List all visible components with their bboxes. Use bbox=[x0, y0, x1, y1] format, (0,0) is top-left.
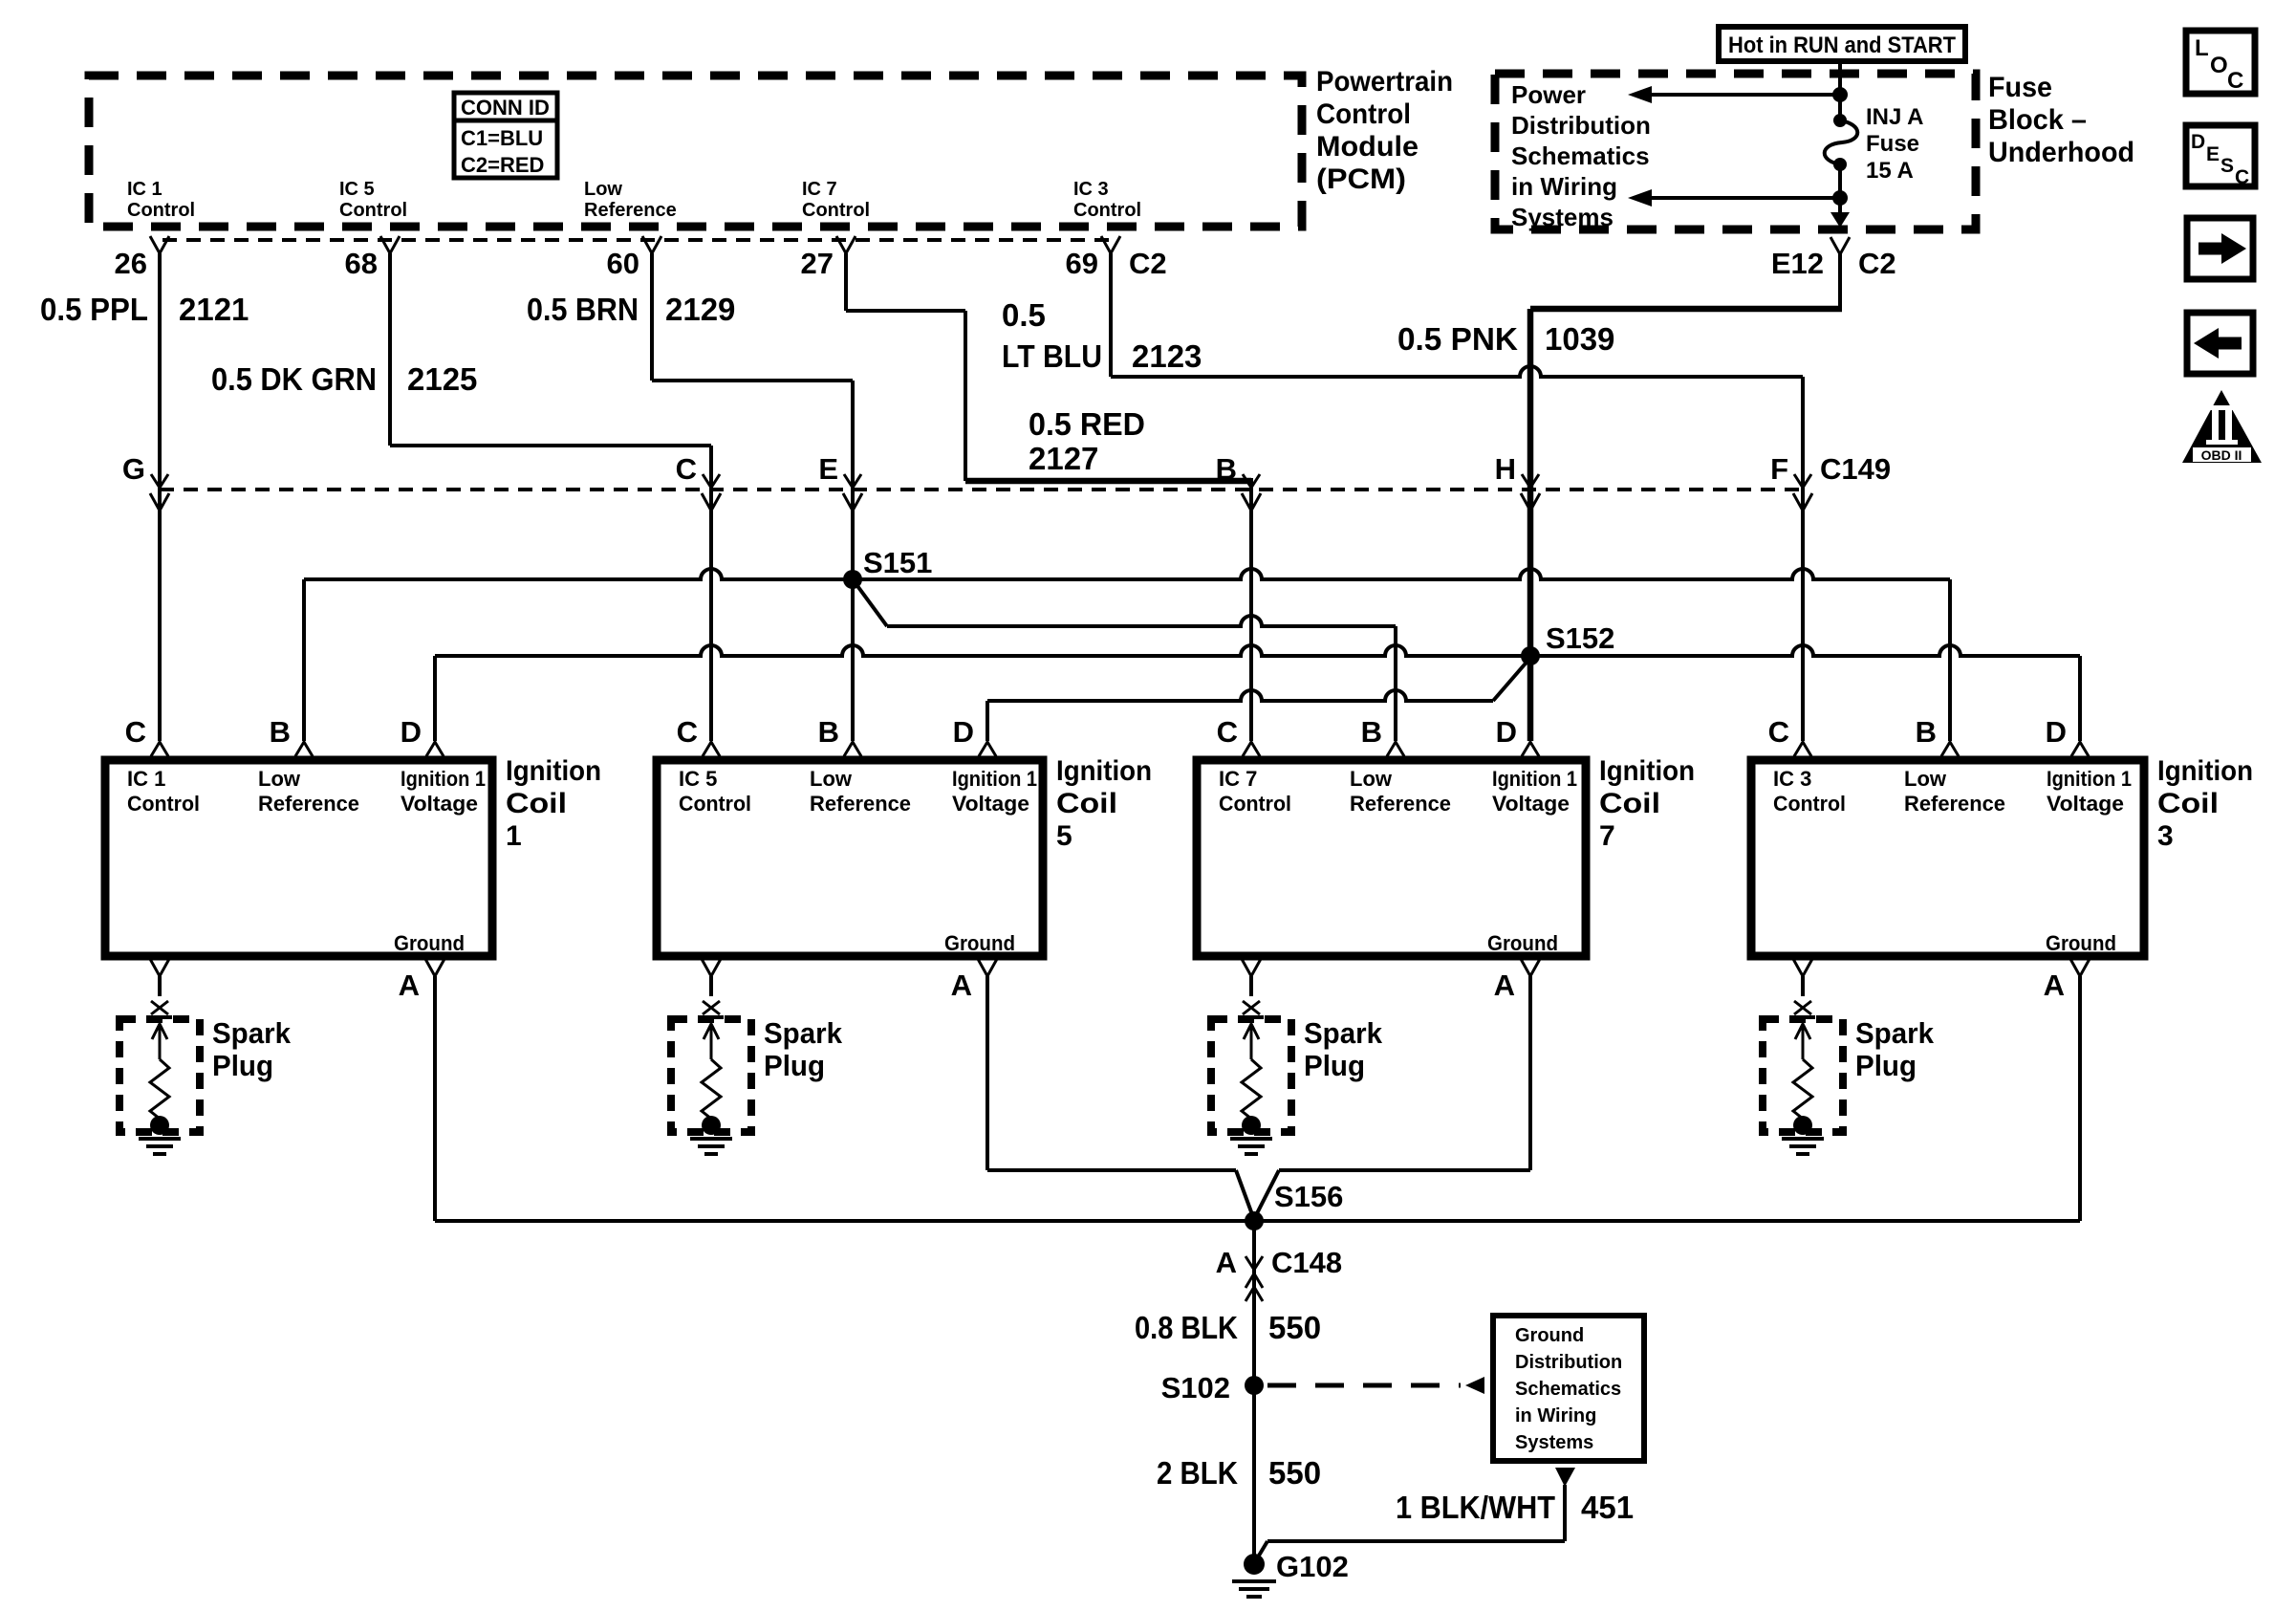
wire label 0.5 LT BLU 2123 bbox=[1002, 297, 1202, 374]
ignition coil 5 name label bbox=[1056, 755, 1152, 852]
svg-text:O: O bbox=[2210, 53, 2228, 78]
svg-text:C: C bbox=[677, 715, 698, 749]
svg-text:S152: S152 bbox=[1546, 621, 1614, 655]
coil 5 pin letter A bbox=[951, 969, 972, 1002]
wire label 1 BLK/WHT 451 bbox=[1396, 1490, 1634, 1525]
coil 1 pin label Ground bbox=[394, 931, 465, 955]
svg-text:Ground: Ground bbox=[1487, 931, 1558, 955]
svg-text:C: C bbox=[2227, 68, 2243, 94]
svg-text:Control: Control bbox=[1773, 792, 1846, 816]
wire 2123 0.5 LT BLU: PCM pin 69 jog to C149 F to coil3 C bbox=[1111, 253, 1803, 741]
wire 2125 0.5 DK GRN: PCM pin 68 jog to C149 C to coil5 C bbox=[390, 253, 711, 741]
coil 5 pin letter B bbox=[818, 715, 839, 749]
svg-text:C: C bbox=[2235, 166, 2249, 188]
wire 2127 0.5 RED: PCM pin 27 jog to C149 B to coil7 C bbox=[846, 253, 1251, 741]
C149 pin letter G bbox=[122, 452, 145, 486]
spark plug dashed box bbox=[119, 1019, 200, 1132]
svg-text:Ground: Ground bbox=[1515, 1325, 1584, 1346]
coil 7 pin letter B bbox=[1361, 715, 1382, 749]
svg-text:1 BLK/WHT: 1 BLK/WHT bbox=[1396, 1490, 1555, 1525]
ignition coil 7 box bbox=[1197, 760, 1586, 956]
coil 5 pin letter D bbox=[953, 715, 974, 749]
svg-text:in Wiring: in Wiring bbox=[1515, 1405, 1596, 1426]
PCM pin number 27 bbox=[801, 247, 834, 280]
svg-text:A: A bbox=[1216, 1246, 1237, 1279]
svg-text:Plug: Plug bbox=[764, 1049, 825, 1082]
PCM pin 60 connector Y bbox=[642, 236, 661, 253]
coil 7 spark output connector bbox=[1242, 959, 1261, 1014]
svg-text:Voltage: Voltage bbox=[401, 792, 478, 816]
coil 7 pin C connector symbol bbox=[1243, 742, 1260, 756]
wire: fuse output down bbox=[1838, 164, 1842, 214]
spark plug dashed box bbox=[1763, 1019, 1843, 1132]
svg-text:IC 7: IC 7 bbox=[1219, 767, 1257, 791]
CONN ID legend table: C1=BLU C2=RED bbox=[454, 93, 557, 178]
svg-text:Control: Control bbox=[679, 792, 751, 816]
arrow out of fuse box (down) bbox=[1830, 212, 1850, 228]
PCM pin number 26 bbox=[115, 247, 147, 280]
svg-text:550: 550 bbox=[1268, 1310, 1321, 1345]
coil 7 pin label Low Reference bbox=[1350, 767, 1451, 816]
coil 3 pin letter B bbox=[1916, 715, 1937, 749]
spark plug ground symbol bbox=[1230, 1139, 1272, 1154]
wire label 0.5 RED 2127 bbox=[1029, 406, 1145, 476]
svg-text:B: B bbox=[1361, 715, 1382, 749]
svg-text:LT BLU: LT BLU bbox=[1002, 338, 1102, 374]
svg-text:Low: Low bbox=[1350, 767, 1393, 791]
ignition coil 3 name label bbox=[2157, 755, 2253, 852]
svg-text:2 BLK: 2 BLK bbox=[1157, 1455, 1238, 1491]
coil 7 pin letter C bbox=[1217, 715, 1238, 749]
svg-text:0.5 PNK: 0.5 PNK bbox=[1397, 321, 1518, 357]
PCM pin 27 connector Y bbox=[836, 236, 856, 253]
svg-text:C2=RED: C2=RED bbox=[461, 153, 544, 177]
coil 5 pin letter C bbox=[677, 715, 698, 749]
svg-text:Control: Control bbox=[1219, 792, 1291, 816]
svg-text:0.5 BRN: 0.5 BRN bbox=[527, 292, 639, 327]
PCM label: Powertrain Control Module (PCM) bbox=[1316, 66, 1453, 195]
svg-text:Control: Control bbox=[339, 200, 407, 221]
coil 3 pin label Ignition 1 Voltage bbox=[2047, 767, 2132, 816]
PCM pin label: IC 1 Control bbox=[127, 179, 195, 221]
svg-text:C1=BLU: C1=BLU bbox=[461, 126, 543, 150]
svg-text:S151: S151 bbox=[863, 546, 932, 579]
svg-text:550: 550 bbox=[1268, 1455, 1321, 1491]
svg-text:B: B bbox=[818, 715, 839, 749]
coil 1 pin letter B bbox=[270, 715, 291, 749]
svg-text:G102: G102 bbox=[1276, 1550, 1349, 1583]
svg-text:Low: Low bbox=[1904, 767, 1947, 791]
wire: coil7 A to S156 bbox=[1255, 976, 1530, 1217]
svg-text:Coil: Coil bbox=[506, 788, 567, 819]
wire label 0.5 PPL 2121 bbox=[40, 292, 249, 327]
svg-text:Reference: Reference bbox=[258, 792, 359, 816]
coil 1 pin D connector symbol bbox=[426, 742, 444, 756]
svg-text:Low: Low bbox=[258, 767, 301, 791]
PCM pin label: IC 5 Control bbox=[339, 179, 407, 221]
svg-text:Ignition 1: Ignition 1 bbox=[2047, 767, 2132, 791]
PCM pin number 68 bbox=[345, 247, 378, 280]
svg-text:A: A bbox=[1494, 969, 1515, 1002]
svg-text:3: 3 bbox=[2157, 820, 2174, 852]
coil 1 pin label Ignition 1 Voltage bbox=[401, 767, 486, 816]
svg-text:Coil: Coil bbox=[1599, 788, 1660, 819]
wire 451 1 BLK/WHT: ground distribution box to G102 bbox=[1256, 1468, 1575, 1560]
svg-text:451: 451 bbox=[1581, 1490, 1634, 1525]
svg-text:IC 3: IC 3 bbox=[1073, 179, 1109, 200]
coil 5 pin label IC 5 Control bbox=[679, 767, 751, 816]
svg-text:S: S bbox=[2220, 155, 2234, 177]
C149 pin H connector symbol bbox=[1521, 474, 1540, 511]
C149 pin B connector symbol bbox=[1242, 474, 1261, 511]
svg-text:Voltage: Voltage bbox=[1492, 792, 1570, 816]
splice label S102 bbox=[1161, 1371, 1230, 1404]
splice S156 bbox=[1245, 1211, 1264, 1230]
spark plug electrode and resistor bbox=[147, 1017, 172, 1135]
svg-text:Reference: Reference bbox=[1350, 792, 1451, 816]
arrow to power distribution (top) bbox=[1628, 86, 1848, 103]
svg-text:Distribution: Distribution bbox=[1511, 111, 1651, 140]
svg-text:2123: 2123 bbox=[1132, 338, 1202, 374]
svg-text:Control: Control bbox=[127, 200, 195, 221]
svg-text:C: C bbox=[125, 715, 146, 749]
spark plug label bbox=[1855, 1016, 1935, 1082]
PCM pin label: IC 3 Control bbox=[1073, 179, 1141, 221]
svg-text:2125: 2125 bbox=[407, 361, 477, 397]
coil 1 pin letter A bbox=[399, 969, 420, 1002]
svg-text:Low: Low bbox=[810, 767, 853, 791]
svg-text:Ground: Ground bbox=[2046, 931, 2116, 955]
svg-text:26: 26 bbox=[115, 247, 147, 280]
ignition coil 7 name label bbox=[1599, 755, 1695, 852]
coil 3 spark output connector bbox=[1793, 959, 1812, 1014]
svg-text:Voltage: Voltage bbox=[952, 792, 1029, 816]
C149 pin C connector symbol bbox=[702, 474, 721, 511]
coil 5 pin B connector symbol bbox=[844, 742, 861, 756]
fuse INJ A 15 A bbox=[1825, 104, 1924, 184]
coil 7 pin letter D bbox=[1496, 715, 1517, 749]
arrow to power distribution (bottom) bbox=[1628, 189, 1848, 207]
LOC icon box bbox=[2186, 31, 2255, 94]
DESC icon box bbox=[2186, 125, 2255, 188]
wire 2129 0.5 BRN: PCM pin 60 jog to C149 E to S151 to coil5 B bbox=[652, 253, 853, 741]
svg-text:Schematics: Schematics bbox=[1511, 142, 1650, 170]
coil 7 pin label Ignition 1 Voltage bbox=[1492, 767, 1577, 816]
connector label A C148 bbox=[1216, 1246, 1343, 1279]
PCM pin 69 connector Y bbox=[1101, 236, 1120, 253]
wire: ignition voltage bus coil1 D to S152 to coil3 D bbox=[435, 645, 2080, 741]
svg-text:B: B bbox=[1216, 452, 1237, 486]
C149 pin G connector symbol bbox=[150, 474, 169, 511]
svg-text:C2: C2 bbox=[1129, 247, 1167, 280]
svg-text:H: H bbox=[1495, 452, 1516, 486]
svg-text:Control: Control bbox=[1316, 98, 1411, 130]
svg-text:C: C bbox=[1768, 715, 1789, 749]
svg-text:Powertrain: Powertrain bbox=[1316, 66, 1453, 98]
svg-text:D: D bbox=[1496, 715, 1517, 749]
left arrow icon box bbox=[2187, 313, 2253, 374]
C149 pin letter B bbox=[1216, 452, 1237, 486]
wire label 0.5 BRN 2129 bbox=[527, 292, 735, 327]
svg-text:Hot in RUN and START: Hot in RUN and START bbox=[1728, 33, 1956, 58]
svg-text:0.5 PPL: 0.5 PPL bbox=[40, 292, 148, 327]
svg-text:Coil: Coil bbox=[1056, 788, 1117, 819]
svg-text:Ignition 1: Ignition 1 bbox=[952, 767, 1037, 791]
svg-text:C2: C2 bbox=[1858, 247, 1896, 280]
svg-text:2129: 2129 bbox=[665, 292, 735, 327]
svg-text:Power: Power bbox=[1511, 80, 1586, 109]
svg-text:L: L bbox=[2195, 35, 2209, 61]
coil 5 pin A connector symbol bbox=[978, 959, 997, 976]
svg-text:0.5: 0.5 bbox=[1002, 297, 1046, 333]
C149 pin letter E bbox=[818, 452, 838, 486]
svg-text:Control: Control bbox=[1073, 200, 1141, 221]
svg-text:68: 68 bbox=[345, 247, 378, 280]
svg-text:Ignition 1: Ignition 1 bbox=[401, 767, 486, 791]
svg-text:E12: E12 bbox=[1771, 247, 1824, 280]
svg-text:Distribution: Distribution bbox=[1515, 1352, 1622, 1373]
coil 3 pin letter C bbox=[1768, 715, 1789, 749]
coil 3 pin label Ground bbox=[2046, 931, 2116, 955]
PCM pin 26 connector Y bbox=[150, 236, 169, 253]
svg-text:Control: Control bbox=[127, 792, 200, 816]
coil 7 pin A connector symbol bbox=[1521, 959, 1540, 976]
svg-text:A: A bbox=[951, 969, 972, 1002]
coil 5 spark output connector bbox=[702, 959, 721, 1014]
svg-text:C: C bbox=[1217, 715, 1238, 749]
Ground Distribution Schematics in Wiring Systems box bbox=[1493, 1316, 1644, 1461]
coil 7 pin label IC 7 Control bbox=[1219, 767, 1291, 816]
svg-text:IC 1: IC 1 bbox=[127, 767, 165, 791]
svg-text:IC 5: IC 5 bbox=[679, 767, 717, 791]
spark plug ground symbol bbox=[1782, 1139, 1824, 1154]
svg-text:Ground: Ground bbox=[394, 931, 465, 955]
svg-text:Underhood: Underhood bbox=[1988, 137, 2134, 168]
coil 7 pin letter A bbox=[1494, 969, 1515, 1002]
ground label G102 bbox=[1276, 1550, 1349, 1583]
svg-text:D: D bbox=[2191, 131, 2205, 153]
PCM pin 68 connector Y bbox=[380, 236, 400, 253]
PCM module box (Powertrain Control Module, dashed) bbox=[89, 76, 1302, 227]
svg-text:Module: Module bbox=[1316, 131, 1419, 163]
spark plug dashed box bbox=[671, 1019, 751, 1132]
wire: ground bus coil1 A to S156 to coil3 A bbox=[435, 976, 2080, 1221]
svg-text:in Wiring: in Wiring bbox=[1511, 172, 1617, 201]
svg-text:Coil: Coil bbox=[2157, 788, 2219, 819]
coil 1 pin A connector symbol bbox=[425, 959, 444, 976]
svg-text:(PCM): (PCM) bbox=[1316, 163, 1406, 195]
svg-text:15 A: 15 A bbox=[1866, 158, 1914, 184]
svg-text:Low: Low bbox=[584, 179, 622, 200]
coil 3 pin C connector symbol bbox=[1794, 742, 1811, 756]
Hot in RUN and START box bbox=[1719, 27, 1965, 61]
wire 2121 0.5 PPL: PCM pin 26 to C149 G to coil1 C bbox=[158, 253, 162, 741]
svg-text:D: D bbox=[401, 715, 422, 749]
svg-text:7: 7 bbox=[1599, 820, 1615, 852]
coil 1 pin letter D bbox=[401, 715, 422, 749]
svg-text:60: 60 bbox=[607, 247, 639, 280]
Fuse Block label bbox=[1988, 72, 2134, 168]
splice S102 bbox=[1245, 1376, 1264, 1395]
svg-text:1039: 1039 bbox=[1545, 321, 1614, 357]
svg-text:Ignition: Ignition bbox=[1056, 755, 1152, 787]
svg-text:Spark: Spark bbox=[764, 1016, 843, 1050]
svg-text:0.8 BLK: 0.8 BLK bbox=[1135, 1310, 1238, 1345]
C149 pin letter F bbox=[1770, 452, 1788, 486]
coil 1 pin letter C bbox=[125, 715, 146, 749]
svg-text:Spark: Spark bbox=[212, 1016, 292, 1050]
coil 3 pin A connector symbol bbox=[2070, 959, 2090, 976]
Fuse Block - Underhood box (dashed) bbox=[1495, 74, 1976, 229]
svg-text:2127: 2127 bbox=[1029, 441, 1098, 476]
C149 pin F connector symbol bbox=[1793, 474, 1812, 511]
coil 5 pin label Ground bbox=[944, 931, 1015, 955]
ignition coil 5 box bbox=[657, 760, 1043, 956]
coil 5 pin C connector symbol bbox=[703, 742, 720, 756]
splice label S151 bbox=[863, 546, 932, 579]
wire: S151 branch to coil7 B bbox=[853, 579, 1396, 741]
coil 1 pin label IC 1 Control bbox=[127, 767, 200, 816]
svg-text:A: A bbox=[2044, 969, 2065, 1002]
wire label 2 BLK 550 bbox=[1157, 1455, 1321, 1491]
wire label 0.5 PNK 1039 bbox=[1397, 321, 1614, 357]
ignition coil 1 name label bbox=[506, 755, 601, 852]
svg-text:Reference: Reference bbox=[1904, 792, 2005, 816]
wire: S152 branch to coil5 D bbox=[987, 658, 1530, 741]
connector E12 C2 Y symbol bbox=[1830, 237, 1850, 254]
svg-text:Schematics: Schematics bbox=[1515, 1379, 1621, 1400]
svg-text:0.5 DK GRN: 0.5 DK GRN bbox=[211, 361, 377, 397]
svg-text:D: D bbox=[2046, 715, 2067, 749]
svg-text:2121: 2121 bbox=[179, 292, 249, 327]
svg-text:27: 27 bbox=[801, 247, 834, 280]
svg-text:A: A bbox=[399, 969, 420, 1002]
spark plug ground symbol bbox=[690, 1139, 732, 1154]
wire label 0.8 BLK 550 bbox=[1135, 1310, 1321, 1345]
svg-text:IC 1: IC 1 bbox=[127, 179, 162, 200]
coil 3 pin D connector symbol bbox=[2071, 742, 2089, 756]
spark plug electrode and resistor bbox=[1790, 1017, 1815, 1135]
svg-text:E: E bbox=[2206, 143, 2220, 165]
PCM C2 connector dashed line bbox=[162, 238, 1111, 242]
coil 3 pin letter A bbox=[2044, 969, 2065, 1002]
wire 550 0.8 BLK: S156 to connector C148 to S102 bbox=[1252, 1221, 1256, 1385]
svg-text:B: B bbox=[1916, 715, 1937, 749]
splice label S156 bbox=[1274, 1180, 1343, 1213]
coil 1 spark output connector bbox=[150, 959, 169, 1014]
wire: feed from Hot box into fuse bbox=[1838, 61, 1842, 120]
svg-text:Fuse: Fuse bbox=[1988, 72, 2052, 103]
svg-text:Plug: Plug bbox=[1855, 1049, 1917, 1082]
PCM pin label: Low Reference bbox=[584, 179, 677, 221]
coil 5 pin label Ignition 1 Voltage bbox=[952, 767, 1037, 816]
svg-text:F: F bbox=[1770, 452, 1788, 486]
svg-text:Fuse: Fuse bbox=[1866, 131, 1919, 157]
coil 5 pin D connector symbol bbox=[979, 742, 996, 756]
connector label C2 (fuse) bbox=[1858, 247, 1896, 280]
svg-text:Ground: Ground bbox=[944, 931, 1015, 955]
connector label C149 bbox=[1820, 452, 1891, 486]
coil 7 pin B connector symbol bbox=[1387, 742, 1404, 756]
coil 7 pin label Ground bbox=[1487, 931, 1558, 955]
wire label 0.5 DK GRN 2125 bbox=[211, 361, 477, 397]
svg-text:1: 1 bbox=[506, 820, 522, 852]
svg-text:S156: S156 bbox=[1274, 1180, 1343, 1213]
coil 7 pin D connector symbol bbox=[1522, 742, 1539, 756]
coil 1 pin C connector symbol bbox=[151, 742, 168, 756]
spark plug ground symbol bbox=[139, 1139, 181, 1154]
svg-text:Block –: Block – bbox=[1988, 104, 2087, 136]
spark plug electrode and resistor bbox=[699, 1017, 724, 1135]
coil 3 pin label IC 3 Control bbox=[1773, 767, 1846, 816]
svg-text:Plug: Plug bbox=[212, 1049, 273, 1082]
splice label S152 bbox=[1546, 621, 1614, 655]
svg-text:IC 3: IC 3 bbox=[1773, 767, 1811, 791]
svg-text:Systems: Systems bbox=[1515, 1432, 1593, 1453]
splice S152 bbox=[1521, 646, 1540, 665]
svg-text:Ignition 1: Ignition 1 bbox=[1492, 767, 1577, 791]
OBD II icon triangle bbox=[2182, 390, 2262, 463]
spark plug label bbox=[764, 1016, 843, 1082]
spark plug dashed box bbox=[1211, 1019, 1291, 1132]
connector C148 symbol bbox=[1245, 1256, 1263, 1301]
svg-text:C148: C148 bbox=[1271, 1246, 1342, 1279]
svg-text:Ignition: Ignition bbox=[2157, 755, 2253, 787]
svg-text:Ignition: Ignition bbox=[506, 755, 601, 787]
svg-text:Control: Control bbox=[802, 200, 870, 221]
ignition coil 1 box bbox=[105, 760, 492, 956]
PCM pin number 69 bbox=[1066, 247, 1098, 280]
wire: coil5 A to S156 bbox=[987, 976, 1253, 1217]
svg-text:Spark: Spark bbox=[1304, 1016, 1383, 1050]
svg-text:IC 7: IC 7 bbox=[802, 179, 837, 200]
coil 1 pin label Low Reference bbox=[258, 767, 359, 816]
coil 1 pin B connector symbol bbox=[295, 742, 313, 756]
svg-text:E: E bbox=[818, 452, 838, 486]
right arrow icon box bbox=[2187, 218, 2253, 279]
ground G102 bbox=[1232, 1554, 1276, 1597]
wire 1039 0.5 PNK: fuse E12 down, jog left, down to C149 H, S152, coil7 D bbox=[1530, 253, 1842, 741]
svg-text:G: G bbox=[122, 452, 145, 486]
wire: low reference bus (splice S151 branch) coil1 B to coil3 B bbox=[304, 569, 1950, 741]
spark plug label bbox=[212, 1016, 292, 1082]
spark plug label bbox=[1304, 1016, 1383, 1082]
coil 3 pin letter D bbox=[2046, 715, 2067, 749]
ignition coil 3 box bbox=[1751, 760, 2144, 956]
connector label C2 at PCM pin 69 bbox=[1129, 247, 1167, 280]
fuse box note: Power Distribution Schematics in Wiring Systems bbox=[1511, 80, 1651, 231]
coil 3 pin B connector symbol bbox=[1941, 742, 1959, 756]
svg-text:5: 5 bbox=[1056, 820, 1072, 852]
svg-text:Spark: Spark bbox=[1855, 1016, 1935, 1050]
svg-text:CONN ID: CONN ID bbox=[461, 96, 550, 120]
coil 3 pin label Low Reference bbox=[1904, 767, 2005, 816]
splice S151 bbox=[843, 570, 862, 589]
PCM pin label: IC 7 Control bbox=[802, 179, 870, 221]
spark plug electrode and resistor bbox=[1239, 1017, 1264, 1135]
svg-text:Voltage: Voltage bbox=[2047, 792, 2124, 816]
dashed reference arrow from S102 to ground distribution box bbox=[1267, 1377, 1484, 1394]
svg-text:OBD II: OBD II bbox=[2201, 447, 2242, 463]
svg-text:Systems: Systems bbox=[1511, 203, 1614, 231]
coil 5 pin label Low Reference bbox=[810, 767, 911, 816]
svg-text:0.5 RED: 0.5 RED bbox=[1029, 406, 1145, 442]
svg-text:D: D bbox=[953, 715, 974, 749]
svg-text:Reference: Reference bbox=[810, 792, 911, 816]
connector label E12 bbox=[1771, 247, 1824, 280]
C149 pin E connector symbol bbox=[843, 474, 862, 511]
C149 pin letter H bbox=[1495, 452, 1516, 486]
